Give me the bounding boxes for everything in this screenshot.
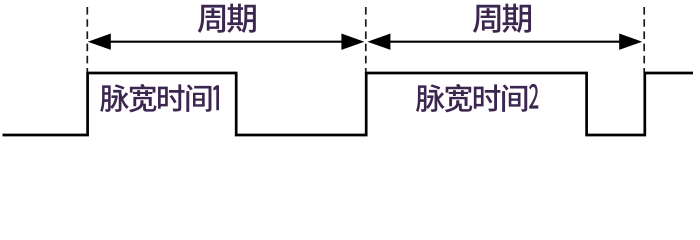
text digit 1 (label 脉宽时间1) xyxy=(213,85,219,110)
pulse timing diagram xyxy=(0,0,700,145)
text 时 (label 脉宽时间2) xyxy=(474,84,501,111)
text 脉 (label 脉宽时间2) xyxy=(416,84,445,112)
arrow: period 2 span: double-headed dimension arrow xyxy=(367,34,642,50)
dashed boundary line 1 xyxy=(86,7,88,72)
text 宽 (label 脉宽时间2) xyxy=(445,84,473,112)
text 间 (label 脉宽时间1) xyxy=(186,85,211,112)
dashed boundary line 3 xyxy=(643,7,645,72)
arrow: period 1 span: double-headed dimension arrow xyxy=(88,34,365,50)
dashed boundary line 2 xyxy=(365,7,367,72)
text 间 (label 脉宽时间2) xyxy=(502,85,527,112)
text 宽 (label 脉宽时间1) xyxy=(129,84,157,112)
text 周 (label 周期 #2) xyxy=(473,5,500,33)
text 时 (label 脉宽时间1) xyxy=(158,84,185,111)
text 期 (label 周期 #2) xyxy=(502,4,531,33)
text digit 2 (label 脉宽时间2) xyxy=(529,84,538,109)
text 期 (label 周期 #1) xyxy=(227,4,256,33)
waveform wire: pulse train xyxy=(3,73,694,135)
text 脉 (label 脉宽时间1) xyxy=(100,84,129,112)
text 周 (label 周期 #1) xyxy=(198,5,225,33)
